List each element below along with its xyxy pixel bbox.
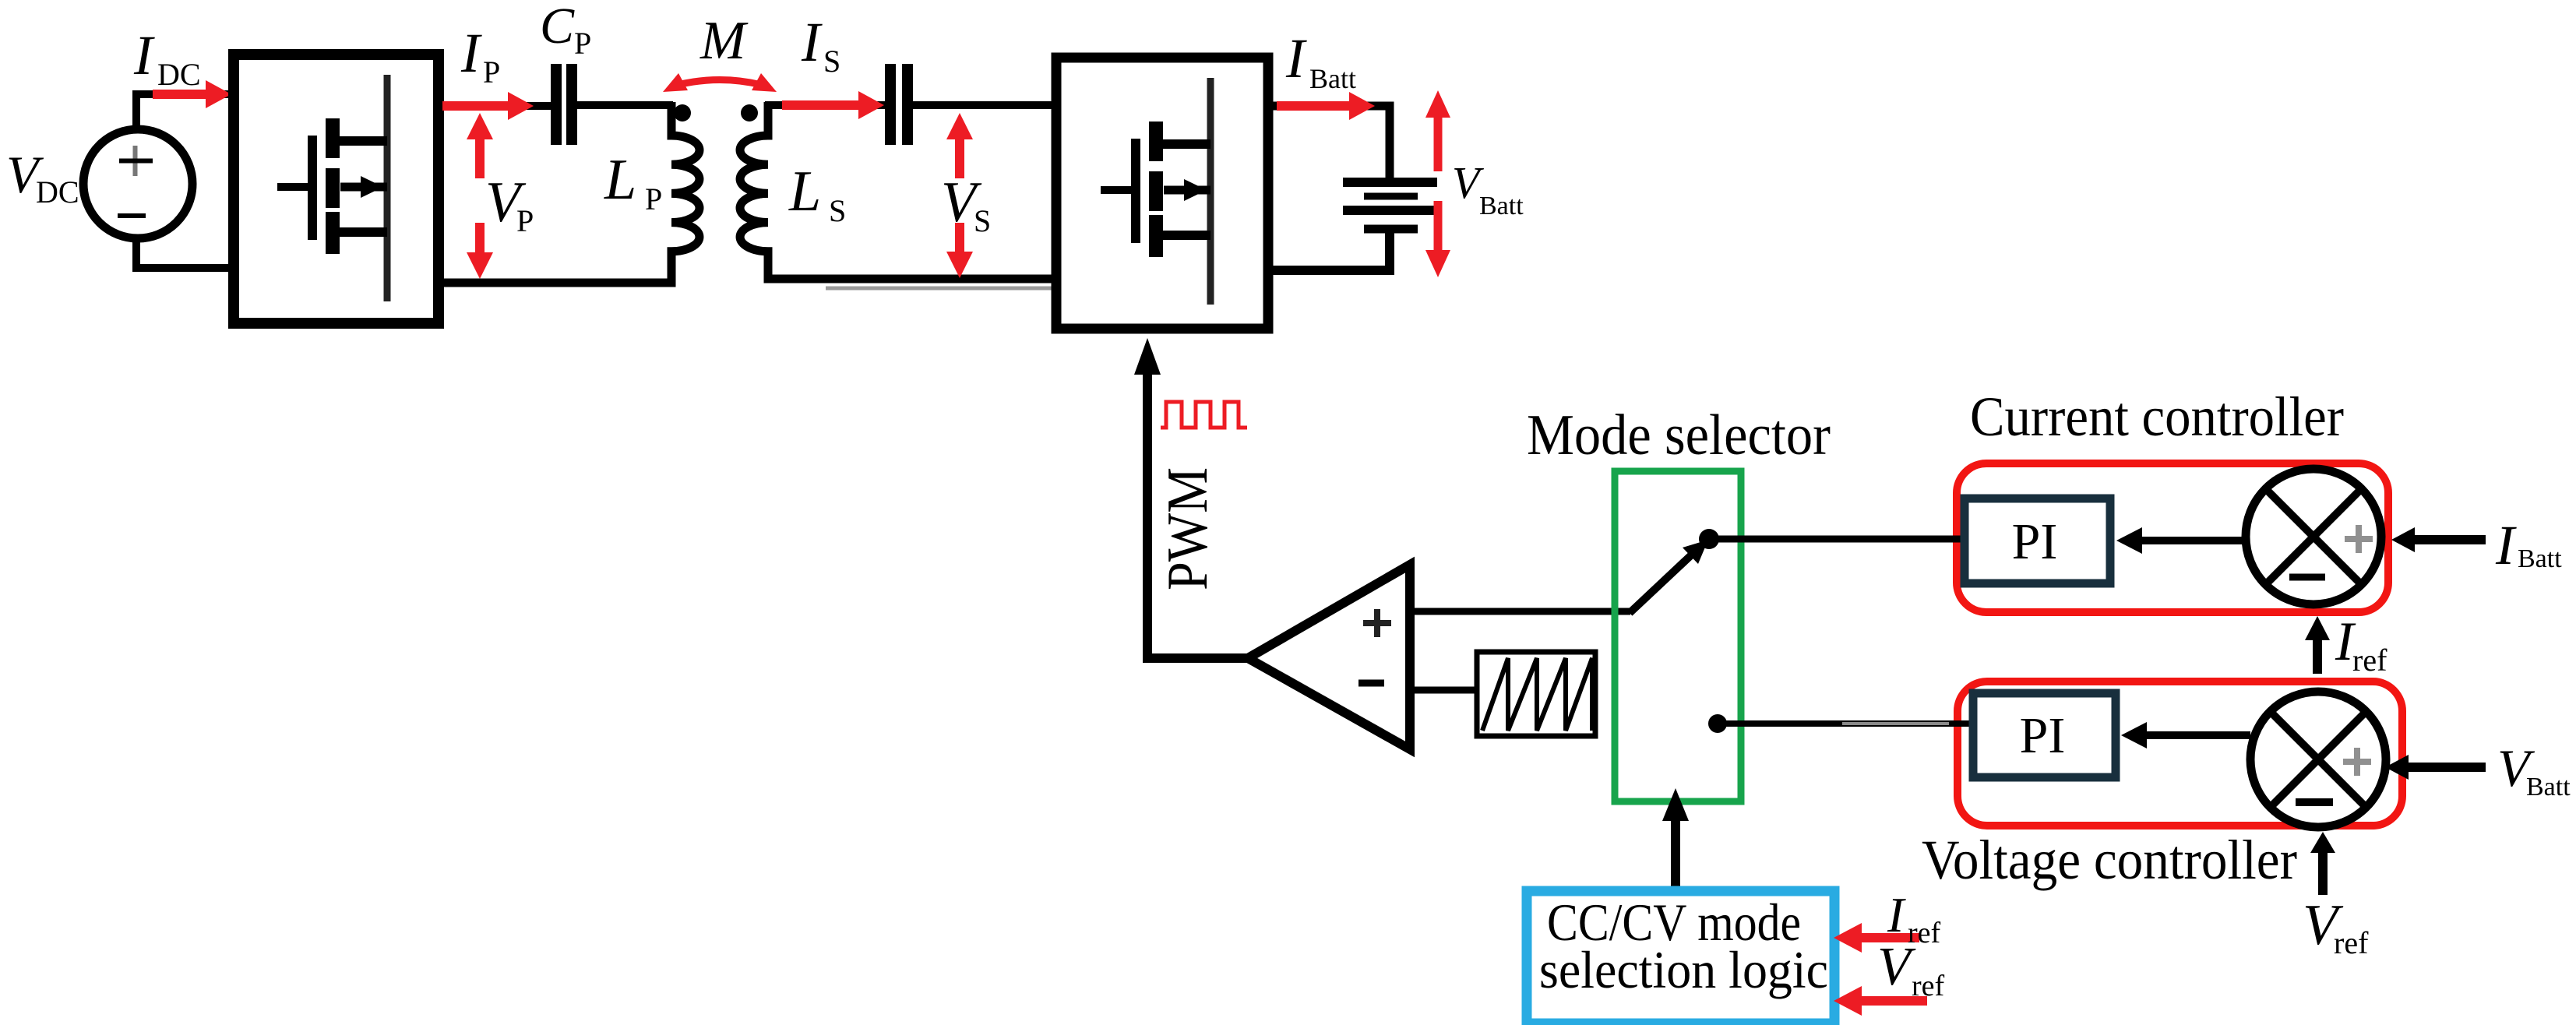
- svg-text:Current controller: Current controller: [1970, 386, 2344, 448]
- svg-text:PWM: PWM: [1156, 467, 1220, 590]
- label IP: [460, 22, 500, 90]
- svg-text:I: I: [801, 11, 823, 73]
- voltage controller box: [1958, 682, 2402, 826]
- svg-text:Voltage controller: Voltage controller: [1922, 829, 2297, 891]
- plus sign: [2343, 748, 2371, 776]
- svg-text:S: S: [823, 44, 840, 79]
- voltage arrow VP: [467, 113, 493, 279]
- svg-text:S: S: [974, 203, 991, 238]
- wire comparator minus input: [1410, 687, 1477, 694]
- svg-text:L: L: [604, 148, 636, 212]
- label IBatt: [1285, 27, 1356, 94]
- svg-text:ref: ref: [1912, 970, 1945, 1002]
- label VBatt input: [2497, 738, 2571, 801]
- label Iref: [1887, 887, 1941, 949]
- svg-text:P: P: [516, 203, 534, 238]
- svg-text:PI: PI: [2020, 707, 2066, 764]
- sawtooth generator: [1477, 652, 1595, 736]
- label IS: [801, 11, 840, 79]
- minus sign: [2289, 574, 2325, 581]
- transformer secondary coil LS: [740, 102, 1056, 279]
- label CC/CV mode selection logic: [1539, 893, 1828, 999]
- label VDC: [6, 145, 79, 210]
- reference input arrow Iref: [1834, 923, 1919, 953]
- CC/CV mode selection logic box: [1527, 891, 1834, 1023]
- label IDC: [133, 24, 201, 92]
- svg-text:I: I: [2495, 514, 2517, 576]
- wire switch to current PI: [1718, 536, 1963, 543]
- wire rectifier to battery top: [1268, 106, 1390, 181]
- svg-text:L: L: [788, 160, 821, 224]
- voltage arrow VBatt: [1425, 90, 1450, 277]
- svg-text:C: C: [540, 0, 575, 55]
- label VP: [485, 171, 534, 238]
- wire grey shadow secondary bottom: [826, 287, 1052, 291]
- svg-text:DC: DC: [36, 174, 79, 210]
- wire grey segment: [1842, 722, 1949, 725]
- pwm waveform: [1161, 402, 1247, 428]
- svg-text:DC: DC: [157, 57, 201, 92]
- wire inverter to CP: [439, 102, 555, 110]
- svg-text:ref: ref: [1908, 917, 1941, 949]
- svg-text:I: I: [1887, 887, 1906, 942]
- minus input sign: [1358, 680, 1384, 687]
- full-bridge inverter block: [234, 55, 439, 323]
- arrow mode logic to selector: [1662, 788, 1689, 888]
- capacitor CP: [551, 64, 577, 145]
- pwm gate drive wire and arrow: [1134, 338, 1248, 658]
- label LP: [604, 148, 662, 217]
- current arrow IS: [782, 91, 884, 119]
- reference arrow Iref to junction: [2305, 616, 2330, 674]
- switch arm: [1630, 540, 1708, 613]
- mutual coupling arrow M: [663, 73, 777, 92]
- plus input sign: [1363, 609, 1391, 637]
- reference arrow Vref to junction: [2310, 832, 2335, 895]
- svg-text:selection logic: selection logic: [1539, 940, 1828, 999]
- input arrow VBatt: [2385, 755, 2486, 780]
- wire over border: [1949, 720, 1974, 727]
- label Vref junction: [2303, 893, 2369, 960]
- svg-text:P: P: [645, 181, 662, 217]
- label LS: [788, 160, 846, 228]
- label Vref: [1877, 937, 1945, 1002]
- svg-text:Batt: Batt: [1309, 63, 1356, 94]
- svg-text:Batt: Batt: [2526, 773, 2571, 801]
- mosfet symbol (rectifier): [1101, 78, 1210, 305]
- wire CS to rectifier: [913, 101, 1056, 109]
- wire CP to LP: [577, 101, 673, 109]
- PI block current: [1965, 498, 2110, 583]
- wire comparator plus input: [1410, 608, 1630, 615]
- wire from VDC bottom to inverter: [136, 238, 234, 268]
- current arrow IP: [442, 92, 534, 120]
- label IBatt input: [2495, 514, 2562, 576]
- label VS: [941, 171, 991, 238]
- capacitor CS: [885, 64, 913, 145]
- label VBatt: [1452, 157, 1524, 220]
- switch pivot dot: [1699, 529, 1719, 549]
- current controller box: [1957, 463, 2388, 612]
- minus sign: [2296, 798, 2333, 806]
- reference input arrow Vref: [1834, 986, 1927, 1016]
- svg-text:S: S: [829, 193, 846, 228]
- input arrow IBatt: [2391, 527, 2486, 552]
- mosfet symbol (inverter): [277, 75, 387, 301]
- svg-text:I: I: [460, 22, 482, 84]
- switch contact dot: [1708, 714, 1727, 733]
- full-bridge rectifier block: [1056, 58, 1268, 329]
- summing junction voltage: [2250, 692, 2386, 827]
- battery: [1343, 182, 1437, 229]
- dc source VDC: [83, 129, 192, 238]
- svg-text:V: V: [1877, 937, 1916, 997]
- wire from VDC top to inverter: [136, 94, 234, 129]
- polarity dot secondary: [741, 104, 758, 122]
- current arrow IBatt: [1277, 92, 1375, 120]
- polarity dot primary: [674, 104, 691, 122]
- arrow junction to PI voltage: [2121, 722, 2250, 748]
- svg-text:Batt: Batt: [1479, 192, 1524, 220]
- wire contact to voltage PI: [1725, 720, 1972, 727]
- svg-text:PI: PI: [2012, 513, 2058, 570]
- wire over border: [1949, 536, 1965, 543]
- svg-text:Mode selector: Mode selector: [1527, 403, 1831, 467]
- plus sign: [2345, 525, 2373, 553]
- PI block voltage: [1973, 693, 2116, 777]
- svg-text:M: M: [700, 11, 749, 71]
- arrow junction to PI current: [2116, 527, 2246, 554]
- comparator: [1248, 565, 1410, 749]
- wire LS to CS: [765, 101, 888, 109]
- current arrow IDC: [153, 80, 231, 108]
- transformer primary coil LP: [433, 102, 700, 283]
- label CP: [540, 0, 591, 61]
- svg-text:P: P: [574, 26, 591, 61]
- svg-text:I: I: [133, 24, 155, 86]
- summing junction current: [2246, 469, 2381, 604]
- svg-text:ref: ref: [2334, 925, 2369, 960]
- svg-text:ref: ref: [2352, 643, 2387, 678]
- svg-text:Batt: Batt: [2518, 544, 2562, 573]
- voltage arrow VS: [946, 113, 973, 278]
- wire battery bottom to rectifier: [1270, 229, 1390, 270]
- mode selector box: [1615, 471, 1741, 801]
- svg-text:I: I: [1285, 27, 1307, 90]
- label Iref junction: [2335, 611, 2387, 678]
- svg-text:P: P: [483, 55, 500, 90]
